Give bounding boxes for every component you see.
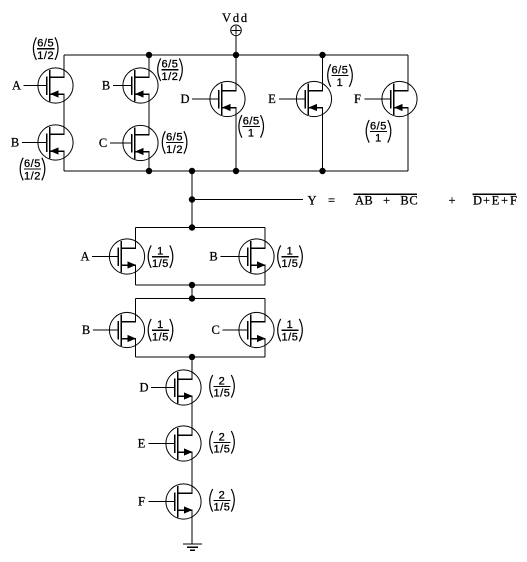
wire bracket2 left side lower: [135, 339, 137, 358]
node Y equation: [307, 194, 316, 208]
transistor M10 (gate B) (NMOS): [82, 312, 145, 347]
wire rail to D drain: [235, 55, 237, 91]
junction bracket2 top: [189, 295, 195, 301]
wire col2 rail to B drain: [148, 55, 150, 77]
wire F source to bottom rail: [407, 108, 409, 172]
junction bottom rail / C2 source: [146, 168, 152, 174]
wire to Y label: [192, 199, 303, 201]
svg-text:2: 2: [219, 375, 226, 387]
transistor M13 (gate E) (NMOS): [138, 426, 201, 461]
junction bracket1 bottom: [189, 282, 195, 288]
size label M2: (6/5/1/2): [20, 158, 45, 183]
svg-text:B: B: [400, 194, 408, 208]
transistor M1 (gate A) (PMOS): [12, 68, 73, 103]
wire D source to bottom rail: [235, 108, 237, 172]
wire B source to C drain (col2): [148, 94, 150, 135]
wire Vdd to top rail: [235, 36, 237, 55]
svg-text:A: A: [12, 79, 21, 93]
wire E source to bottom rail: [322, 108, 324, 172]
svg-text:D: D: [180, 92, 189, 106]
size label M4: (6/5/1/2): [162, 131, 187, 156]
svg-text:6/5: 6/5: [166, 132, 183, 144]
svg-text:2: 2: [219, 431, 226, 443]
svg-text:1/5: 1/5: [214, 388, 231, 400]
transistor M2 (gate B) (PMOS): [11, 125, 73, 160]
size label M5: (6/5/1): [239, 115, 264, 140]
junction bracket2 bottom / series chain: [189, 354, 195, 360]
wire bracket1 right side lower: [264, 265, 266, 285]
wire bracket2 left side upper: [135, 299, 137, 322]
wire bracket1 bottom bar: [136, 284, 266, 286]
svg-text:B: B: [102, 79, 110, 93]
svg-text:+: +: [501, 194, 508, 208]
transistor M12 (gate D) (NMOS): [139, 370, 201, 405]
junction top rail / Vdd / D drain: [233, 52, 239, 58]
size label M7: (6/5/1): [366, 120, 391, 145]
transistor M3 (gate B) (PMOS): [102, 68, 158, 103]
svg-text:Y: Y: [307, 194, 316, 208]
svg-text:6/5: 6/5: [332, 65, 349, 77]
svg-text:1: 1: [287, 319, 294, 331]
junction top rail / B2 drain: [146, 52, 152, 58]
size label M3: (6/5/1/2): [158, 58, 183, 83]
size label M11: (1/1/5): [278, 319, 303, 344]
transistor M7 (gate F) (PMOS): [354, 81, 417, 116]
wire bracket2 bottom bar: [136, 356, 266, 358]
size label M14: (2/1/5): [210, 489, 235, 514]
transistor M8 (gate A) (NMOS): [80, 239, 144, 274]
transistor M9 (gate B) (NMOS): [209, 239, 274, 274]
junction output node Y: [189, 196, 195, 202]
svg-text:2: 2: [219, 489, 226, 501]
svg-text:1/5: 1/5: [214, 502, 231, 514]
svg-text:1: 1: [375, 133, 382, 145]
size label M8: (1/1/5): [148, 245, 173, 270]
wire rail to F drain: [407, 55, 409, 91]
wire bracket2 right side lower: [264, 339, 266, 358]
svg-text:C: C: [409, 194, 417, 208]
svg-text:E: E: [268, 92, 276, 106]
size label M1: (6/5/1/2): [33, 37, 58, 62]
svg-text:B: B: [82, 323, 90, 337]
svg-text:A: A: [80, 250, 89, 264]
transistor M6 (gate E) (PMOS): [268, 81, 331, 116]
svg-text:B: B: [209, 250, 217, 264]
svg-text:1: 1: [337, 77, 344, 89]
size label M6: (6/5/1): [328, 64, 353, 89]
junction top rail / E drain: [319, 52, 325, 58]
svg-text:E: E: [492, 194, 500, 208]
svg-text:F: F: [510, 194, 517, 208]
wire col1 rail to A drain: [63, 55, 65, 77]
svg-text:B: B: [11, 136, 19, 150]
svg-text:B: B: [364, 194, 372, 208]
svg-text:1: 1: [157, 246, 164, 258]
svg-text:+: +: [383, 194, 390, 208]
transistor M14 (gate F) (NMOS): [138, 484, 201, 519]
wire bracket1 left side upper: [135, 228, 137, 249]
svg-text:Vdd: Vdd: [222, 11, 249, 25]
transistor M4 (gate C) (PMOS): [99, 125, 158, 160]
svg-text:6/5: 6/5: [162, 59, 179, 71]
size label M13: (2/1/5): [210, 431, 235, 456]
svg-text:A: A: [355, 194, 364, 208]
svg-text:1/5: 1/5: [282, 258, 299, 270]
svg-text:1/5: 1/5: [152, 258, 169, 270]
svg-text:1/5: 1/5: [152, 332, 169, 344]
wire C source to bottom rail (col2): [148, 152, 150, 172]
ground symbol: [183, 544, 202, 550]
wire A source to B drain (col1): [63, 94, 65, 134]
svg-text:1: 1: [157, 319, 164, 331]
svg-text:6/5: 6/5: [24, 158, 41, 170]
wire bottom rail (output node rail): [64, 170, 408, 172]
transistor M11 (gate C) (NMOS): [212, 312, 275, 347]
Vdd supply symbol (circle with plus): [231, 25, 242, 36]
svg-text:C: C: [212, 323, 220, 337]
wire D source to E drain: [191, 396, 193, 435]
junction bracket1 top: [189, 224, 195, 230]
wire chain to D drain: [191, 357, 193, 379]
size label M9: (1/1/5): [278, 245, 303, 270]
wire top rail (source rail): [64, 54, 408, 56]
wire bracket2 top bar: [136, 298, 266, 300]
svg-text:D: D: [473, 194, 482, 208]
svg-text:6/5: 6/5: [370, 120, 387, 132]
svg-text:1/2: 1/2: [162, 71, 179, 83]
svg-text:6/5: 6/5: [37, 38, 54, 50]
transistor M5 (gate D) (PMOS): [180, 81, 245, 116]
size label M12: (2/1/5): [210, 375, 235, 400]
svg-text:+: +: [448, 194, 455, 208]
svg-text:1/2: 1/2: [37, 50, 54, 62]
junction bottom rail / D source: [233, 168, 239, 174]
wire bracket1 top bar: [136, 227, 266, 229]
wire bracket1 to bracket2: [191, 285, 193, 299]
wire bracket1 left side lower: [135, 265, 137, 285]
wire output drop from bottom rail to NMOS network: [191, 171, 193, 228]
wire bracket2 right side upper: [264, 299, 266, 322]
svg-text:1/5: 1/5: [214, 444, 231, 456]
svg-text:1/5: 1/5: [282, 332, 299, 344]
size label M10: (1/1/5): [148, 319, 173, 344]
junction bottom rail / output drop: [189, 168, 195, 174]
svg-text:+: +: [483, 194, 490, 208]
junction bottom rail / E source: [319, 168, 325, 174]
svg-text:E: E: [138, 437, 146, 451]
wire bracket1 right side upper: [264, 228, 266, 249]
svg-text:1: 1: [287, 246, 294, 258]
svg-text:=: =: [328, 194, 335, 208]
wire E source to F drain: [191, 452, 193, 493]
svg-text:F: F: [354, 92, 361, 106]
svg-text:1/2: 1/2: [24, 170, 41, 182]
svg-text:C: C: [99, 136, 107, 150]
svg-text:6/5: 6/5: [243, 115, 260, 127]
wire rail to E drain: [322, 55, 324, 91]
svg-text:F: F: [138, 495, 145, 509]
wire B source to bottom rail (col1): [63, 151, 65, 171]
wire F source to ground: [191, 510, 193, 544]
svg-text:1/2: 1/2: [166, 144, 183, 156]
svg-text:D: D: [139, 381, 148, 395]
svg-text:1: 1: [248, 128, 255, 140]
